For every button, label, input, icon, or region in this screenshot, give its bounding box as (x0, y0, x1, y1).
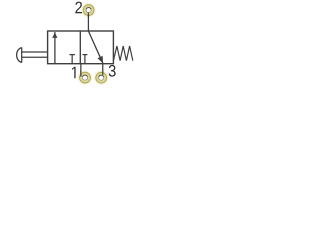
spring return (113, 46, 132, 61)
right box diagonal flow line 2 to 3 (88, 31, 103, 63)
left box arrowhead up (52, 32, 57, 38)
T1 blocked port left box (69, 55, 75, 64)
port 1 inner circle (82, 75, 87, 80)
port 1 connection line (80, 64, 82, 77)
pushbutton actuator cap (17, 47, 22, 62)
port 2 connection line (87, 13, 89, 32)
port 3 inner circle (99, 75, 104, 80)
port 3 highlight circle (94, 71, 108, 85)
port 2 highlight circle (82, 3, 96, 17)
right box arrowhead down (98, 56, 104, 64)
valve position divider (79, 31, 81, 64)
label 1 (72, 67, 76, 78)
port 3 connection line (102, 64, 104, 75)
port 2 inner circle (86, 8, 91, 13)
T2 blocked port right box (83, 55, 88, 64)
pushbutton rod rails (22, 52, 48, 57)
port 1 connection line over ring (80, 70, 82, 76)
left box flow line 1 to 2 (54, 32, 56, 64)
port 3 connection line over ring (102, 70, 104, 74)
valve body outline (48, 31, 114, 64)
port 2 connection line over ring (87, 13, 89, 18)
label 3 (109, 65, 116, 77)
port 1 highlight circle (78, 71, 92, 85)
label 2 (75, 2, 82, 14)
